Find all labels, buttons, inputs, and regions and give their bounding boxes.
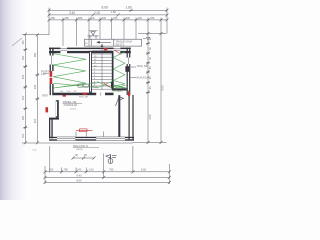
svg-text:400: 400 xyxy=(90,16,95,20)
svg-text:0.90: 0.90 xyxy=(41,74,46,76)
svg-text:TANQ. 500: TANQ. 500 xyxy=(137,65,149,68)
svg-text:00.00: 00.00 xyxy=(93,87,99,89)
svg-text:"xxxxx": "xxxxx" xyxy=(70,108,77,110)
svg-text:1.80: 1.80 xyxy=(111,10,117,14)
svg-text:PANEL DE: PANEL DE xyxy=(63,100,77,104)
svg-text:160: 160 xyxy=(21,55,25,60)
svg-text:BALCON N: BALCON N xyxy=(74,144,88,148)
svg-text:3.40: 3.40 xyxy=(69,11,75,15)
svg-text:200: 200 xyxy=(21,74,25,79)
svg-text:380: 380 xyxy=(33,52,37,57)
svg-text:780: 780 xyxy=(65,16,70,20)
svg-text:420: 420 xyxy=(33,118,37,123)
svg-text:580: 580 xyxy=(78,16,83,20)
svg-text:VENT: VENT xyxy=(42,96,49,98)
svg-text:600: 600 xyxy=(102,16,107,20)
svg-text:400: 400 xyxy=(138,16,143,20)
svg-text:9.05: 9.05 xyxy=(161,85,165,91)
svg-text:500: 500 xyxy=(49,167,54,171)
svg-text:600: 600 xyxy=(126,16,131,20)
svg-text:780: 780 xyxy=(150,16,155,20)
svg-text:4.65: 4.65 xyxy=(148,114,152,120)
svg-text:240: 240 xyxy=(77,167,82,171)
svg-text:150: 150 xyxy=(21,40,25,45)
svg-text:8.60: 8.60 xyxy=(102,6,109,10)
svg-text:PISO DE: PISO DE xyxy=(79,97,88,99)
svg-text:150: 150 xyxy=(21,133,25,138)
svg-text:8.00: 8.00 xyxy=(141,167,147,171)
svg-text:780: 780 xyxy=(109,167,114,171)
svg-text:780: 780 xyxy=(64,167,69,171)
svg-text:210: 210 xyxy=(21,95,25,100)
svg-text:A MODULAR: A MODULAR xyxy=(64,104,78,107)
svg-text:500 LTS.: 500 LTS. xyxy=(116,44,126,46)
svg-text:1.60: 1.60 xyxy=(89,167,95,171)
svg-text:BAJA AGUA: BAJA AGUA xyxy=(137,77,150,80)
svg-text:2.30 PASO: 2.30 PASO xyxy=(113,90,123,93)
svg-text:PUERTA: PUERTA xyxy=(41,71,51,74)
svg-text:TANQUE AGUA: TANQUE AGUA xyxy=(116,41,133,44)
svg-text:230: 230 xyxy=(33,84,37,89)
svg-text:9.40: 9.40 xyxy=(77,174,83,178)
svg-text:+xx.xx: +xx.xx xyxy=(76,149,83,151)
svg-text:1.80: 1.80 xyxy=(126,5,132,9)
svg-text:180: 180 xyxy=(21,115,25,120)
svg-text:780: 780 xyxy=(113,16,118,20)
svg-text:2.00: 2.00 xyxy=(94,11,100,15)
svg-text:8.60: 8.60 xyxy=(77,179,83,183)
svg-text:780: 780 xyxy=(51,16,56,20)
